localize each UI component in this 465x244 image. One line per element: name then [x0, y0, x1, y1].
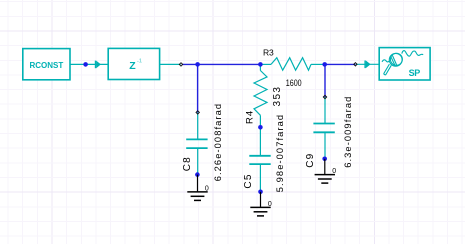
- svg-text:RCONST: RCONST: [30, 61, 64, 70]
- svg-text:R4: R4: [244, 110, 255, 124]
- svg-text:0: 0: [332, 168, 336, 175]
- svg-text:Z: Z: [129, 60, 136, 72]
- svg-text:C5: C5: [243, 173, 254, 188]
- svg-text:-1: -1: [137, 58, 142, 64]
- svg-text:C9: C9: [305, 153, 316, 168]
- svg-text:0: 0: [268, 201, 272, 208]
- svg-text:SP: SP: [409, 68, 421, 78]
- svg-text:R3: R3: [263, 47, 274, 57]
- svg-text:0: 0: [205, 186, 209, 193]
- svg-text:1600: 1600: [286, 77, 302, 88]
- svg-text:353: 353: [272, 86, 283, 107]
- svg-text:6.26e-008farad: 6.26e-008farad: [213, 103, 223, 181]
- svg-text:6.3e-009farad: 6.3e-009farad: [343, 96, 353, 168]
- svg-text:5.98e-007farad: 5.98e-007farad: [275, 114, 285, 192]
- svg-text:C8: C8: [182, 156, 193, 171]
